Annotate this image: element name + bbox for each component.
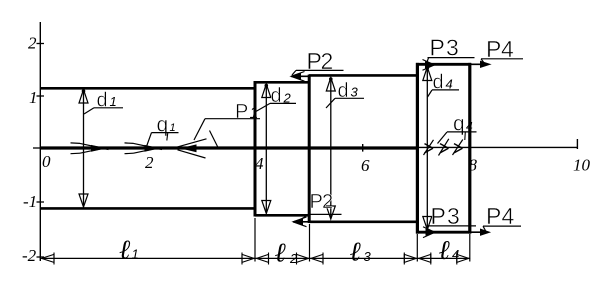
extension line at x=309.5 (309, 224, 311, 262)
svg-text:3: 3 (364, 249, 372, 264)
y tick -1 (37, 201, 45, 203)
svg-text:P: P (430, 35, 445, 61)
force P3 bottom arrow (426, 229, 435, 235)
svg-text:P: P (235, 101, 248, 123)
dim arrow at x=469.8 (457, 254, 469, 262)
svg-text:P: P (310, 191, 323, 213)
x axis thick part (40, 146, 417, 149)
bottom dimension line (42, 257, 471, 259)
extension line at x=417.3 (416, 234, 418, 262)
dim arrows at x=417.3 (404, 254, 416, 262)
y tick 0 (33, 147, 40, 149)
force P4 bottom arrow (470, 231, 487, 233)
svg-text:-1: -1 (23, 192, 37, 211)
shaft section 3 top edge (309, 74, 418, 77)
x axis thin part (417, 146, 579, 148)
shaft section 4 right edge (468, 63, 471, 234)
force P1 arrow (182, 145, 196, 152)
x tick 6 (362, 144, 364, 152)
shaft section 4 left edge (416, 63, 419, 234)
shaft section 4 bottom edge (416, 231, 471, 234)
force P3 top arrow (426, 62, 435, 68)
q4 load chevrons (425, 144, 434, 149)
shaft section 3 bottom edge (309, 221, 418, 224)
svg-text:P: P (486, 36, 501, 62)
dimension d2 line (265, 85, 267, 212)
svg-text:-2: -2 (22, 246, 37, 265)
y axis (39, 22, 41, 261)
y tick 1 (37, 95, 45, 97)
svg-text:4: 4 (502, 203, 515, 229)
shaft section 3 left edge (308, 75, 311, 224)
svg-text:1: 1 (132, 247, 139, 262)
y tick 2 (37, 43, 45, 45)
extension line at x=469.8 (469, 234, 471, 262)
svg-text:2: 2 (322, 191, 333, 213)
svg-text:P: P (486, 203, 501, 229)
svg-text:ℓ: ℓ (119, 235, 131, 265)
svg-text:ℓ: ℓ (350, 237, 362, 267)
shaft section 4 top edge (416, 63, 471, 66)
svg-text:6: 6 (361, 156, 370, 175)
dim arrow left end (l1 left) (42, 254, 55, 262)
q1 load arrow A (92, 146, 105, 152)
svg-text:4: 4 (452, 247, 459, 262)
dimension d3 line (330, 79, 332, 217)
shaft section 2 bottom edge (255, 214, 310, 217)
svg-text:1: 1 (110, 94, 117, 109)
force P2 top arrow (291, 75, 309, 77)
svg-text:0: 0 (42, 152, 51, 171)
shaft section 1 bottom edge (40, 207, 256, 210)
shaft section 2 top edge (255, 81, 310, 84)
shaft section 2 left edge (254, 81, 257, 217)
svg-text:2: 2 (289, 251, 298, 266)
extension line at x=255 (254, 218, 256, 262)
svg-text:1: 1 (29, 88, 38, 107)
dim arrows at x=309.5 (297, 254, 309, 262)
force P4 top arrow (470, 63, 487, 65)
svg-text:2: 2 (28, 34, 37, 53)
svg-text:10: 10 (573, 156, 591, 175)
force P2 bottom arrow (293, 221, 309, 223)
x tick 10 (576, 139, 578, 149)
svg-text:ℓ: ℓ (439, 235, 451, 265)
shaft section 1 top edge (40, 87, 256, 90)
svg-text:1: 1 (250, 105, 259, 122)
y tick -2 (37, 256, 45, 258)
svg-text:4: 4 (255, 154, 264, 173)
svg-text:ℓ: ℓ (275, 238, 287, 268)
svg-text:3: 3 (447, 203, 460, 229)
dim arrows at x=255 (242, 254, 254, 262)
svg-text:4: 4 (501, 36, 514, 62)
svg-text:3: 3 (351, 85, 359, 100)
dimension d1 line (83, 91, 85, 205)
dimension d4 line (426, 68, 428, 228)
q1 load arrow B (145, 146, 158, 152)
svg-text:8: 8 (469, 156, 478, 175)
svg-text:P: P (431, 203, 446, 229)
svg-text:2: 2 (145, 153, 154, 172)
svg-text:3: 3 (446, 35, 459, 61)
svg-text:4: 4 (446, 77, 453, 92)
